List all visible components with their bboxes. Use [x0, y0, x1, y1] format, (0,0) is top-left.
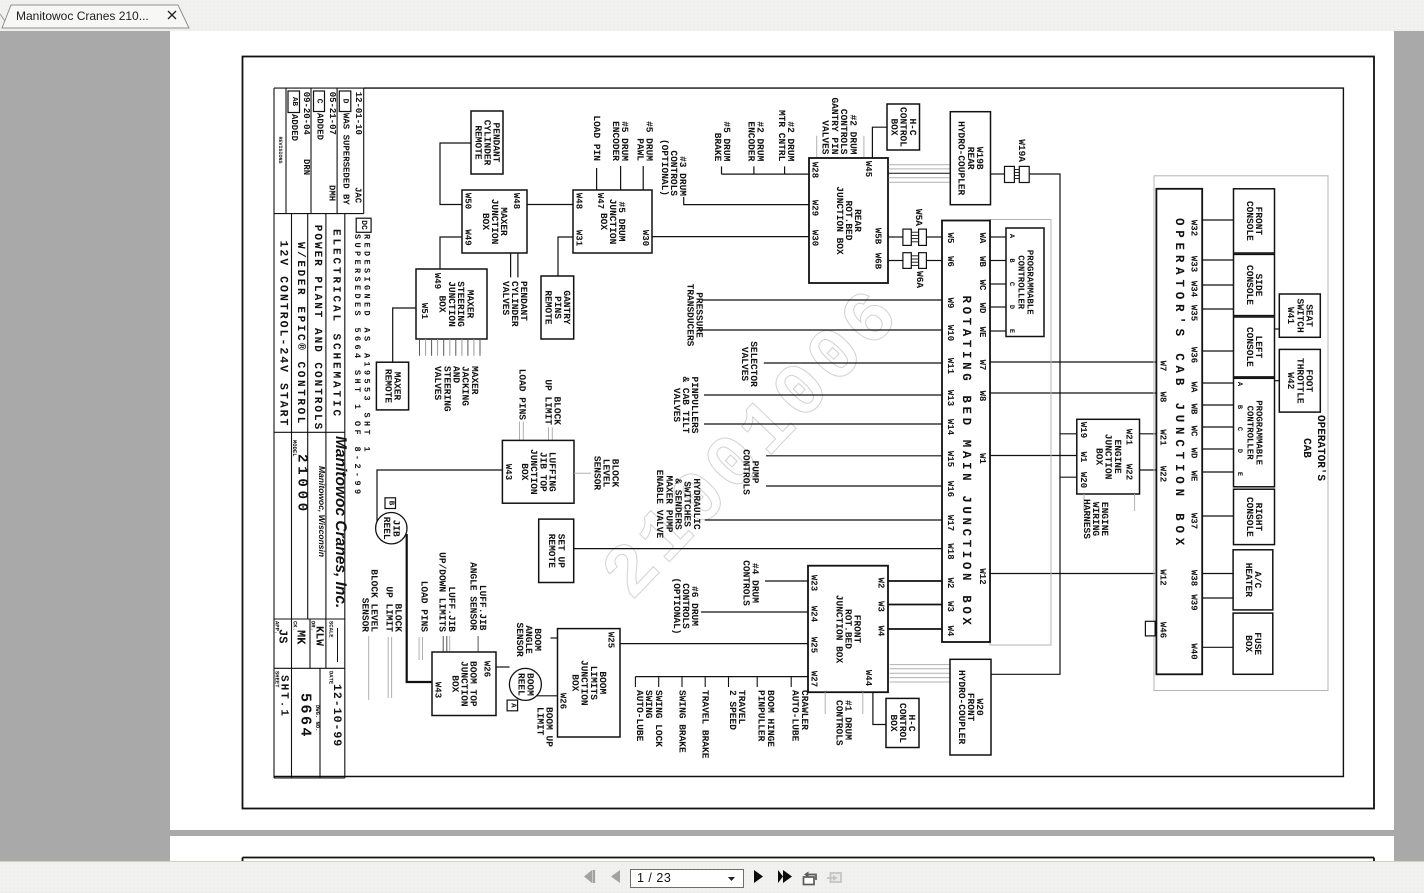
wire W17 hydraulic switches — [705, 519, 942, 521]
svg-text:REEL: REEL — [515, 673, 526, 696]
gray tick boom up limit — [558, 726, 565, 728]
pin W10 main — [945, 325, 955, 341]
pin W49 maxer — [463, 229, 473, 245]
pin W47 — [595, 193, 605, 209]
svg-text:TRAVEL BRAKE: TRAVEL BRAKE — [700, 690, 711, 759]
svg-text:W3: W3 — [945, 601, 955, 612]
wire WB to controller — [990, 260, 1006, 262]
pin W17 main — [945, 515, 955, 531]
letter A — [509, 703, 517, 708]
svg-text:W36: W36 — [1189, 347, 1199, 363]
revision C date — [327, 92, 337, 135]
pin W21 engine — [1124, 429, 1134, 446]
svg-text:W2: W2 — [945, 578, 955, 589]
box LEFT CONSOLE — [1234, 317, 1275, 377]
pin W23 — [809, 575, 819, 591]
svg-text:2 SPEED: 2 SPEED — [727, 690, 738, 730]
svg-text:CONTROLS: CONTROLS — [740, 560, 751, 606]
box PROGRAMMABLE CONTROLLER cab — [1234, 378, 1275, 487]
revision AB initials — [301, 159, 311, 175]
label TRAVEL BRAKE — [700, 690, 711, 759]
wire W31 to gantry pins remote — [558, 237, 573, 276]
wire W10 pressure transducer 2 — [698, 329, 942, 331]
svg-text:WD: WD — [1189, 448, 1199, 459]
svg-text:B: B — [387, 501, 395, 506]
label BOOM HINGE PINPULLER — [756, 690, 776, 747]
pin W25 boomlimits — [606, 632, 616, 648]
wire swing bus W27 — [635, 676, 808, 678]
label #3 DRUM CONTROLS OPTIONAL — [659, 139, 688, 196]
svg-text:CONTROLS: CONTROLS — [740, 449, 751, 495]
title POWER PLANT — [311, 225, 323, 431]
W6A pins — [911, 256, 918, 266]
wire W38 cab — [1202, 573, 1233, 575]
pin W20 engine — [1078, 472, 1088, 488]
label JIB REEL — [381, 517, 401, 540]
svg-text:W6B: W6B — [873, 253, 883, 270]
rotate/export icon light — [826, 867, 844, 887]
svg-text:W5B: W5B — [873, 228, 883, 245]
pin controller D — [1007, 305, 1015, 309]
pin W7 main right — [977, 360, 987, 371]
svg-text:W22: W22 — [1124, 464, 1134, 480]
svg-text:JUNCTION BOX: JUNCTION BOX — [834, 186, 845, 255]
revision C initials — [326, 185, 336, 201]
svg-text:W45: W45 — [863, 161, 873, 177]
svg-text:W33: W33 — [1189, 256, 1199, 272]
svg-text:W26: W26 — [558, 693, 568, 709]
svg-text:WB: WB — [1189, 404, 1199, 415]
svg-text:ENCODER: ENCODER — [610, 121, 621, 161]
wire foot throttle — [1275, 380, 1280, 382]
svg-text:VALVES: VALVES — [671, 388, 682, 423]
pin W34 cab — [1189, 281, 1199, 298]
svg-text:CONSOLE: CONSOLE — [1244, 327, 1255, 367]
svg-text:E: E — [1235, 472, 1243, 476]
pin W25 front — [809, 637, 819, 653]
pin W36 cab — [1189, 347, 1199, 363]
wire W5A to W5 — [926, 236, 942, 238]
svg-text:SWING BRAKE: SWING BRAKE — [677, 690, 688, 753]
pin W29 — [810, 200, 820, 216]
svg-text:DRN: DRN — [301, 159, 311, 175]
svg-text:C: C — [1235, 427, 1243, 431]
scale blank line — [337, 628, 339, 662]
date field — [328, 671, 335, 685]
pin W43 boomtop — [433, 682, 443, 698]
pin W27 — [809, 671, 819, 687]
svg-text:SENSOR: SENSOR — [591, 456, 602, 491]
pin W50 — [463, 193, 473, 209]
wire W5B to W5A — [889, 236, 903, 238]
label LUFF JIB UP/DOWN LIMITS — [437, 552, 457, 632]
svg-text:TRANSDUCERS: TRANSDUCERS — [684, 284, 695, 347]
gray leader engine harness 2 — [1134, 494, 1136, 511]
pin W26 boomtop — [482, 661, 492, 677]
pin W24 — [809, 606, 819, 623]
svg-text:(OPTIONAL): (OPTIONAL) — [659, 139, 670, 196]
pin W5 main — [945, 233, 955, 244]
revision D letter — [341, 99, 350, 104]
svg-text:W26: W26 — [482, 661, 492, 677]
svg-text:W24: W24 — [809, 606, 819, 623]
svg-text:SUPERSEDES 5664 SHT 1 OF 8-2-9: SUPERSEDES 5664 SHT 1 OF 8-2-99 — [352, 234, 362, 498]
dwg no field — [314, 705, 321, 731]
pin WA cab — [1189, 382, 1199, 393]
active tab — [2, 5, 189, 28]
wire W6B to W6A — [889, 260, 903, 262]
wire WA to controller — [990, 236, 1006, 238]
svg-text:W7: W7 — [1158, 361, 1168, 372]
title MAXER STEERING JUNCTION BOX — [437, 281, 476, 327]
title W/EDER EPIC — [294, 242, 306, 426]
title block grid — [274, 88, 364, 778]
svg-text:W41: W41 — [1285, 307, 1296, 324]
note redesigned text — [362, 234, 372, 455]
wire W22 engine-cab — [1140, 469, 1157, 471]
svg-text:WA: WA — [1189, 382, 1199, 393]
label BOOM REEL — [515, 673, 535, 696]
svg-text:W1: W1 — [977, 453, 987, 464]
svg-text:REMOTE: REMOTE — [543, 290, 554, 325]
pin W26 boomlimits — [558, 693, 568, 709]
boom top leader wires — [369, 636, 450, 700]
svg-text:SHT.1: SHT.1 — [278, 675, 290, 718]
gray leader #1 drum 2 — [862, 692, 864, 714]
svg-text:21000: 21000 — [294, 454, 310, 515]
logo Manitowoc Wisconsin — [317, 466, 327, 557]
pin W18 main — [945, 543, 955, 559]
note supersedes text — [352, 234, 362, 498]
gray leader load pins luffing 2 — [522, 422, 524, 441]
revision AB box — [288, 91, 300, 113]
svg-text:OPERATOR'S: OPERATOR'S — [1314, 415, 1326, 481]
svg-text:W19: W19 — [1078, 422, 1088, 438]
svg-text:12V CONTROL-24V START: 12V CONTROL-24V START — [277, 241, 290, 428]
pin controller C — [1007, 282, 1015, 286]
wire WA cab controller — [1202, 382, 1233, 384]
svg-text:WA: WA — [977, 233, 987, 244]
pin W11 main — [945, 358, 955, 375]
svg-text:MTR CNTRL: MTR CNTRL — [776, 110, 787, 162]
svg-text:W13: W13 — [945, 390, 955, 406]
wire W37 cab — [1202, 515, 1233, 517]
label SWING AUTO-LUBE — [634, 690, 654, 742]
svg-text:DC: DC — [359, 220, 368, 230]
wire pendant cylinder valves 2 — [517, 253, 519, 277]
svg-text:ADDED: ADDED — [315, 113, 325, 141]
svg-text:W40: W40 — [1189, 643, 1199, 659]
box FOOT THROTTLE W42 — [1279, 349, 1320, 412]
pin W43 luffing — [503, 464, 513, 480]
svg-text:HARNESS: HARNESS — [1081, 499, 1092, 539]
box SEAT SWITCH W41 — [1279, 294, 1320, 337]
wire W13 pinpullers 1 — [704, 394, 942, 396]
title ROTATING BED MAIN JUNCTION BOX — [959, 295, 973, 628]
svg-text:C: C — [315, 99, 324, 104]
wire W39 cab — [1202, 597, 1233, 599]
wire pendant cylinder remote to maxer jb — [440, 143, 471, 205]
pin W32 cab — [1189, 220, 1199, 236]
connector W5A right — [919, 229, 927, 245]
label W6A — [914, 271, 925, 288]
wire W8 to cab — [990, 392, 1156, 394]
svg-text:W16: W16 — [945, 481, 955, 497]
svg-text:W25: W25 — [606, 632, 616, 648]
gray wire gantry valves 2 — [863, 136, 865, 158]
label SWING LOCK — [653, 690, 664, 747]
connector W6A left — [903, 253, 911, 269]
title ELECTRICAL SCHEMATIC — [330, 229, 342, 419]
svg-text:C: C — [1007, 282, 1015, 286]
svg-text:HEATER: HEATER — [1243, 563, 1254, 598]
box MAXER STEERING JUNCTION BOX — [416, 269, 487, 339]
box ROTATING BED MAIN JUNCTION BOX — [942, 221, 990, 643]
label PRESSURE TRANSDUCERS — [684, 284, 704, 347]
svg-text:W29: W29 — [810, 200, 820, 216]
svg-text:WB: WB — [977, 256, 987, 267]
logo Manitowoc Cranes Inc — [332, 436, 349, 608]
model number 21000 — [294, 454, 310, 515]
wire boom top W26 to boom reel — [496, 666, 510, 668]
svg-text:SCALE: SCALE — [328, 621, 335, 638]
svg-text:W30: W30 — [640, 230, 650, 246]
pin W35 cab — [1189, 305, 1199, 321]
jib reel circle — [376, 513, 407, 544]
svg-text:W39: W39 — [1189, 594, 1199, 610]
svg-text:W/EDER EPIC® CONTROL: W/EDER EPIC® CONTROL — [294, 242, 306, 426]
svg-text:WD: WD — [977, 303, 987, 314]
pin W12 main right — [977, 568, 987, 584]
label #5 DRUM PAWL — [634, 121, 654, 161]
gray leader block level sensor — [574, 472, 591, 474]
gray wire gantry valves 1 — [816, 136, 818, 158]
wire #5 encoder — [620, 166, 622, 190]
svg-text:D: D — [1007, 305, 1015, 309]
W46 connector notch — [1145, 621, 1155, 636]
pin W37 cab — [1189, 513, 1199, 529]
revisions header — [277, 136, 283, 163]
label PUMP CONTROLS — [740, 449, 760, 495]
svg-text:09-20-04: 09-20-04 — [301, 92, 311, 136]
pin W31 — [574, 230, 584, 247]
note DC letters — [359, 220, 368, 230]
svg-text:ENABLE VALVE: ENABLE VALVE — [654, 470, 665, 539]
pin WD main right — [977, 303, 987, 314]
svg-text:W9: W9 — [945, 298, 955, 309]
svg-text:BOX: BOX — [449, 675, 460, 692]
wire W2 front-main — [888, 580, 942, 582]
pin W46 cab left — [1158, 622, 1168, 638]
watermark 21001006 — [587, 273, 920, 618]
pin W6B — [873, 253, 883, 270]
svg-text:W21: W21 — [1158, 429, 1168, 446]
wire W12 to cab — [990, 573, 1155, 575]
wire boom reel to boom limits — [537, 695, 558, 697]
revision C letter — [315, 99, 324, 104]
svg-text:CONTROLLER: CONTROLLER — [1016, 255, 1026, 310]
pin W4 front — [876, 626, 886, 637]
pin W8 main right — [977, 391, 987, 402]
dr value KLW — [313, 626, 325, 646]
svg-text:W8: W8 — [1158, 392, 1168, 403]
svg-text:W38: W38 — [1189, 570, 1199, 586]
svg-text:WE: WE — [977, 327, 987, 338]
wire W25 boom limits to front box — [620, 643, 808, 645]
page selector dropdown — [630, 869, 744, 888]
rotate/import icon dark — [801, 867, 819, 887]
label BLOCK LEVEL SENSOR far left — [359, 569, 379, 632]
svg-text:BOX: BOX — [598, 213, 609, 230]
svg-text:PINPULLER: PINPULLER — [756, 690, 767, 742]
pin W22 engine — [1124, 464, 1134, 480]
revision D initials — [352, 187, 362, 204]
wire WC cab controller — [1202, 426, 1233, 428]
scale header — [328, 621, 335, 638]
svg-text:BOX: BOX — [519, 463, 530, 480]
svg-text:ROTATING BED MAIN JUNCTION BOX: ROTATING BED MAIN JUNCTION BOX — [959, 295, 973, 628]
svg-text:W7: W7 — [977, 360, 987, 371]
pin W6 main — [945, 256, 955, 267]
W19A pins — [1014, 170, 1019, 179]
revision D box — [339, 91, 351, 112]
letter B — [387, 501, 395, 506]
pin W7 cab left — [1158, 361, 1168, 372]
swing bus ticks — [635, 677, 791, 687]
svg-text:W31: W31 — [574, 230, 584, 247]
svg-text:ELECTRICAL SCHEMATIC: ELECTRICAL SCHEMATIC — [330, 229, 342, 419]
drawing outer border frame — [243, 57, 1375, 809]
svg-text:ANGLE SENSOR: ANGLE SENSOR — [468, 562, 479, 631]
svg-text:W6A: W6A — [914, 271, 925, 288]
svg-text:BRAKE: BRAKE — [712, 133, 723, 162]
wire #6 drum controls W24 — [701, 611, 808, 613]
wire maxer steering W51 to maxer remote — [393, 308, 416, 362]
wire jib reel to boom top W43 — [407, 534, 432, 682]
pin W16 main — [945, 481, 955, 497]
wire W16 pump controls 2 — [766, 485, 942, 487]
wire WB cab controller — [1202, 404, 1233, 406]
pin W49 steering — [432, 273, 442, 289]
svg-text:SENSOR: SENSOR — [514, 622, 525, 657]
label BLOCK UP LIMIT luffing — [542, 379, 562, 425]
svg-text:W51: W51 — [419, 303, 429, 320]
wire boom angle sensor — [550, 637, 557, 639]
revision D text — [341, 113, 351, 205]
box SET UP REMOTE — [539, 519, 574, 582]
revision D date — [353, 92, 363, 135]
svg-text:CAB: CAB — [1300, 438, 1312, 458]
date value — [330, 684, 343, 747]
svg-text:D: D — [341, 99, 350, 104]
gray leader block up limit 1 — [548, 427, 550, 440]
svg-text:W27: W27 — [809, 671, 819, 687]
svg-text:W50: W50 — [463, 193, 473, 209]
svg-text:W3: W3 — [876, 601, 886, 612]
boom reel circle — [509, 668, 541, 700]
svg-text:W28: W28 — [810, 162, 820, 178]
label #2 DRUM CONTROLS GANTRY PIN VALVES — [820, 97, 859, 154]
last page button — [776, 867, 796, 887]
pin W14 main — [945, 419, 955, 436]
svg-text:W5A: W5A — [913, 209, 924, 226]
pin W3 main — [945, 601, 955, 612]
wire mtr cntrl tick — [784, 166, 786, 174]
svg-text:REEL: REEL — [381, 517, 392, 540]
pin W1 engine — [1078, 452, 1088, 463]
label HYDRAULIC SWITCHES SENDERS — [654, 470, 702, 539]
pin W30 rear — [810, 230, 820, 246]
svg-text:W49: W49 — [432, 273, 442, 289]
svg-text:CONSOLE: CONSOLE — [1244, 497, 1255, 537]
first page button — [583, 867, 599, 887]
box SIDE CONSOLE — [1234, 254, 1275, 315]
box FRONT ROT BED JUNCTION BOX — [808, 566, 888, 693]
svg-text:VALVES: VALVES — [432, 366, 443, 401]
svg-text:DWG. NO.: DWG. NO. — [314, 705, 321, 731]
pin controller A — [1007, 234, 1015, 239]
pin W40 cab — [1189, 643, 1199, 659]
toolbar — [0, 861, 1424, 893]
harness wires rear box to rear hydro-coupler — [889, 165, 951, 183]
svg-text:W35: W35 — [1189, 305, 1199, 321]
svg-text:JS: JS — [276, 629, 290, 643]
svg-text:BOX: BOX — [1094, 448, 1105, 465]
svg-text:W1: W1 — [1078, 452, 1088, 463]
gray leader block up limit 2 — [551, 427, 553, 440]
connector W5A left — [903, 229, 911, 245]
box FUSE BOX — [1233, 613, 1273, 674]
wire encoder tick — [753, 166, 755, 174]
svg-text:REMOTE: REMOTE — [472, 125, 483, 160]
note DC box — [356, 218, 371, 232]
box LUFFING JIB TOP JUNCTION BOX — [502, 440, 574, 503]
svg-text:PAWL: PAWL — [634, 138, 645, 161]
pin W21 cab left — [1158, 429, 1168, 446]
app field — [274, 621, 281, 634]
pin controller B — [1007, 258, 1015, 263]
drawing inner border frame — [274, 88, 1343, 776]
pin W5B — [873, 228, 883, 245]
pin W28 — [810, 162, 820, 178]
label W5A — [913, 209, 924, 226]
dwg number 5664 — [297, 693, 314, 739]
box MAXER JUNCTION BOX — [462, 190, 527, 253]
pin W48 right — [574, 193, 584, 209]
box REAR HYDRO-COUPLER — [950, 112, 990, 205]
svg-text:POWER PLANT AND CONTROLS: POWER PLANT AND CONTROLS — [311, 225, 323, 431]
svg-text:CONSOLE: CONSOLE — [1244, 265, 1255, 305]
pin W15 main — [945, 451, 955, 467]
wire brake tick — [721, 166, 723, 174]
svg-text:DATE: DATE — [328, 671, 335, 685]
label BLOCK LEVEL SENSOR right — [591, 456, 620, 491]
wire W11 selector valves — [764, 362, 942, 364]
svg-text:W32: W32 — [1189, 220, 1199, 236]
pin W1 main right — [977, 453, 987, 464]
boom top leader wires dark — [443, 636, 478, 652]
svg-text:SWING LOCK: SWING LOCK — [653, 690, 664, 747]
pin W45 — [863, 161, 873, 177]
svg-text:LOAD PINS: LOAD PINS — [517, 369, 528, 421]
sheet value — [278, 675, 290, 718]
box PENDANT CYLINDER REMOTE — [471, 111, 503, 174]
wire W18 set up remote — [574, 548, 942, 550]
wire W36 cab — [1202, 350, 1233, 352]
jib reel B tag — [385, 498, 396, 509]
svg-text:D: D — [1235, 449, 1243, 453]
pin W33 cab — [1189, 256, 1199, 272]
